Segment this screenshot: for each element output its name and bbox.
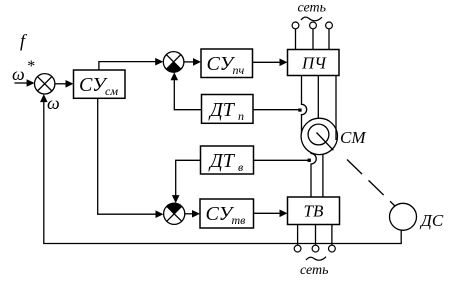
block DTp (202, 95, 254, 124)
wire S2 to SUpch (184, 61, 195, 63)
svg-text:СУ: СУ (79, 74, 108, 96)
svg-text:*: * (27, 58, 35, 75)
summing junction S2 (163, 52, 184, 73)
svg-text:ДТ: ДТ (208, 150, 236, 172)
wire DTv tap (254, 159, 308, 161)
terminal circles bottom (294, 245, 335, 252)
block SUsm (74, 70, 126, 98)
tap square DTv (308, 159, 311, 162)
svg-text:см: см (105, 84, 118, 98)
wire SM to TV left with sensor loop (311, 153, 316, 197)
summing junction S1 (35, 74, 55, 94)
wire DTv feedback to S4 (176, 160, 201, 199)
tap square on excitation (308, 159, 311, 162)
wire omega-star input (15, 82, 29, 84)
svg-text:пч: пч (233, 63, 245, 77)
svg-text:сеть: сеть (300, 263, 329, 278)
wire SUsm bottom to S4 (98, 98, 158, 214)
machine SM (301, 118, 337, 154)
wire PCh to SM phase a with sensor loop (302, 76, 307, 133)
svg-text:ω: ω (12, 64, 25, 84)
mechanical coupling dashed SM to DS (347, 160, 397, 208)
tap square DTp (298, 109, 301, 112)
wire SUtv to TV (254, 212, 282, 214)
svg-text:ДТ: ДТ (208, 99, 236, 121)
wire DTp feedback to S2 (174, 76, 201, 110)
wire TV bottom stubs (298, 225, 332, 246)
svg-text:тв: тв (232, 213, 246, 227)
block PCh (288, 50, 340, 76)
wire PCh to SM phase c (335, 76, 337, 141)
svg-text:сеть: сеть (298, 1, 327, 16)
svg-text:ω: ω (47, 93, 60, 113)
block TV (288, 197, 340, 225)
svg-text:в: в (238, 160, 243, 174)
svg-text:п: п (238, 109, 244, 123)
terminal circles top (292, 22, 332, 29)
svg-text:ПЧ: ПЧ (301, 54, 327, 73)
block SUpch (201, 49, 253, 78)
wire S1 to SUsm (55, 83, 67, 85)
svg-text:ДС: ДС (419, 211, 444, 230)
wire PCh top stubs (296, 29, 330, 50)
wire SUsm top to S2 (99, 62, 157, 70)
svg-text:СУ: СУ (206, 203, 235, 225)
summing junction S4 (164, 203, 185, 224)
svg-text:СМ: СМ (340, 128, 366, 147)
wire SM to TV right (322, 154, 324, 197)
block SUtv (200, 199, 254, 228)
tap square on phase a (298, 109, 301, 112)
sensor DS (390, 203, 417, 230)
block DTv (201, 146, 254, 174)
wire SUpch to PCh (253, 61, 282, 63)
AC tilde top (301, 17, 322, 21)
wire DTp tap (253, 109, 298, 111)
svg-text:ТВ: ТВ (304, 202, 324, 221)
wire S4 to SUtv (185, 213, 194, 215)
wire DS feedback to S1 (44, 98, 401, 244)
AC tilde bottom (306, 257, 326, 261)
wire PCh to SM phase b (317, 76, 319, 119)
svg-text:СУ: СУ (207, 53, 236, 75)
